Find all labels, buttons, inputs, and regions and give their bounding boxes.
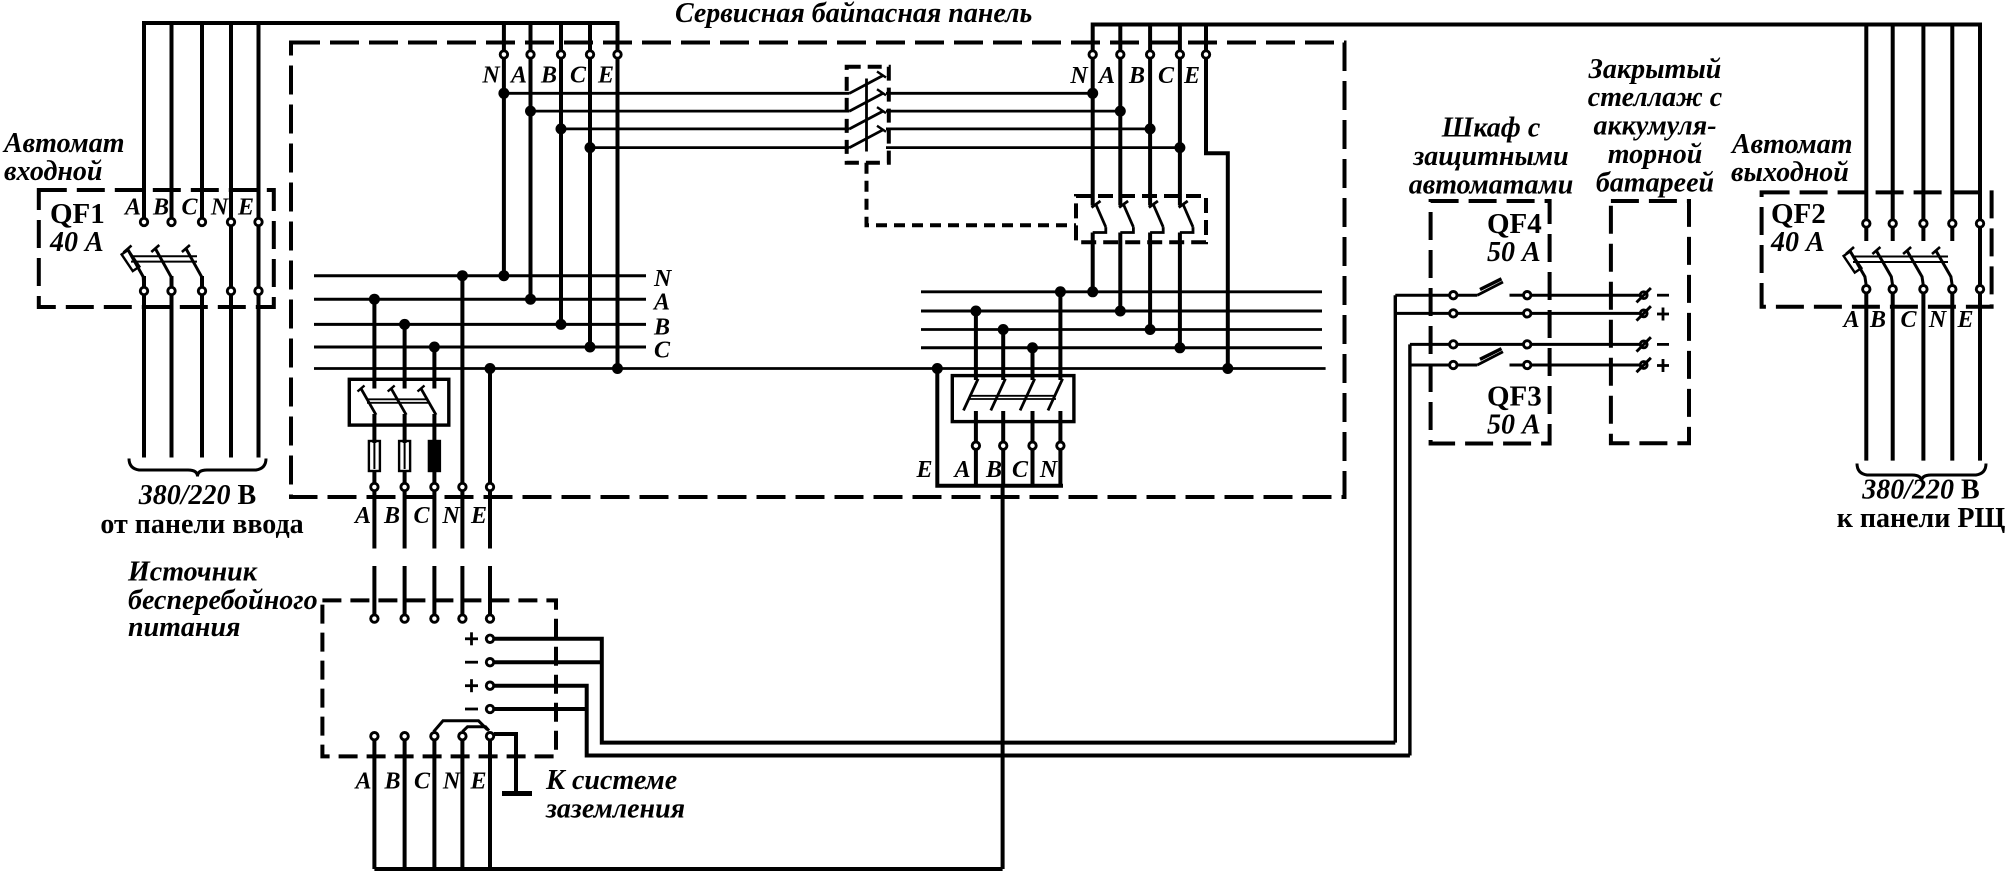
svg-text:А: А xyxy=(353,769,371,795)
svg-text:С: С xyxy=(414,769,431,795)
wire B horizontal left xyxy=(561,127,850,130)
label Закрытый стеллаж с аккумуляторной батареей xyxy=(1588,54,1723,199)
junction dots on E line xyxy=(485,363,1234,374)
QF2 blade bottom stubs xyxy=(1865,276,1953,286)
bypass panel dashed enclosure xyxy=(291,43,1345,498)
QF2 linkage bars xyxy=(1853,257,1948,263)
wires terminals down to strip xyxy=(976,450,1061,486)
svg-text:Е: Е xyxy=(1956,307,1973,333)
svg-text:А: А xyxy=(952,457,970,483)
svg-text:аккумуля-: аккумуля- xyxy=(1593,111,1716,142)
contactor K2 linkage bars xyxy=(969,396,1056,399)
UPS output terminal circles xyxy=(371,733,494,740)
junction dots on left buses xyxy=(369,270,596,352)
battery2 wire plus (QF3 pole) xyxy=(1410,364,1640,367)
svg-text:N: N xyxy=(441,503,461,529)
svg-text:С: С xyxy=(1158,63,1175,89)
DC wire battery2 plus xyxy=(494,686,1410,756)
ground xyxy=(502,791,532,796)
battery clamp 3 xyxy=(1637,337,1651,351)
svg-text:N: N xyxy=(481,63,501,89)
node N vertical (set1 to N bus) xyxy=(502,59,506,276)
wire B down to left contactor xyxy=(403,324,407,388)
fuse FU1 xyxy=(369,441,380,471)
N bus (left) xyxy=(314,274,646,277)
bypass manual switch dashed box xyxy=(847,67,889,163)
battery polarity marks - + - + xyxy=(1657,295,1669,372)
svg-text:А: А xyxy=(1841,307,1859,333)
interlock breakers dashed box xyxy=(1076,196,1206,242)
terminal circles QF2 top row xyxy=(1863,220,1984,227)
interlock breaker lower connectors xyxy=(1093,227,1193,232)
svg-text:Е: Е xyxy=(915,457,932,483)
wire A horizontal right xyxy=(886,110,1120,113)
battery1 wire minus (QF4 pole) xyxy=(1395,294,1640,297)
svg-text:входной: входной xyxy=(4,156,102,187)
bond bridge C to E xyxy=(434,721,488,732)
label Шкаф с защитными автоматами xyxy=(1409,113,1574,201)
svg-text:Шкаф с: Шкаф с xyxy=(1441,113,1541,144)
fuse FU2 xyxy=(399,441,410,471)
svg-text:Сервисная байпасная панель: Сервисная байпасная панель xyxy=(675,0,1032,29)
svg-text:380/220 В: 380/220 В xyxy=(138,480,256,511)
QF2 output verticals xyxy=(1866,25,1952,220)
svg-text:Е: Е xyxy=(597,63,614,89)
battery clamp 4 xyxy=(1637,358,1651,372)
wire A down to left contactor xyxy=(372,299,376,388)
node N vertical set2 xyxy=(1091,59,1095,206)
N bus (right, bypass output) xyxy=(921,290,1322,293)
svg-text:40 А: 40 А xyxy=(1770,227,1825,258)
contactor K2 blades xyxy=(964,379,1063,411)
bracket 380/220 В to РЩ panel xyxy=(1857,464,1986,482)
svg-text:50 А: 50 А xyxy=(1487,237,1541,268)
wire C down to left contactor xyxy=(432,347,436,389)
contactor K2 box (solid) xyxy=(952,376,1074,422)
QF1 blade bottom stubs xyxy=(143,276,202,288)
svg-text:QF3: QF3 xyxy=(1487,381,1542,413)
wire B K2 to terminal xyxy=(1001,411,1005,442)
wire C down to contactor K2 xyxy=(1031,348,1035,380)
node B vertical (set1 to B bus) xyxy=(559,59,563,324)
svg-text:торной: торной xyxy=(1608,139,1703,170)
bus labels N A B C xyxy=(652,266,673,364)
UPS dashed enclosure xyxy=(322,600,556,756)
DC wire battery2 minus xyxy=(494,707,587,711)
wire top bus right (set2 to QF2) xyxy=(1093,25,1980,223)
label К системе заземления xyxy=(545,765,685,825)
QF2 output lower verticals xyxy=(1866,293,1980,461)
wire QF1 pole B lower xyxy=(170,276,174,458)
pin labels set2 N A B C E xyxy=(1069,63,1200,89)
interlock breaker top ticks xyxy=(1092,201,1188,208)
svg-text:Автомат: Автомат xyxy=(2,128,125,159)
cabinet terminal circles xyxy=(1450,292,1531,369)
wire C horizontal left xyxy=(590,146,850,149)
QF2 pole upper stubs xyxy=(1866,228,1980,286)
svg-text:питания: питания xyxy=(128,612,240,643)
wire input C vertical xyxy=(200,24,204,222)
svg-text:N: N xyxy=(1069,63,1089,89)
svg-text:N: N xyxy=(210,195,230,221)
svg-text:QF4: QF4 xyxy=(1487,208,1542,240)
wire A fuse to terminal xyxy=(372,471,376,483)
label Источник бесперебойного питания xyxy=(127,557,318,644)
QF1 blade tick marks xyxy=(124,245,190,253)
wire B down to contactor K2 xyxy=(1001,330,1005,381)
junction dots on set1 verticals xyxy=(498,88,595,153)
node E vertical (set1 to E line) xyxy=(616,59,620,369)
UPS input terminal circles xyxy=(371,615,494,622)
svg-text:С: С xyxy=(1012,457,1029,483)
svg-text:В: В xyxy=(383,503,400,529)
wire QF1 pole C lower xyxy=(200,276,204,458)
battery2 wire minus xyxy=(1410,343,1640,346)
svg-text:В: В xyxy=(152,195,169,221)
wire B contactor to fuse xyxy=(403,414,407,443)
svg-text:QF1: QF1 xyxy=(50,198,105,230)
svg-text:N: N xyxy=(653,266,673,292)
QF1 linkage bar xyxy=(131,256,197,261)
wire E down from E line to strip xyxy=(937,369,1063,486)
svg-text:В: В xyxy=(540,63,557,89)
terminal stubs set2 xyxy=(1120,25,1206,51)
QF1 operating handle xyxy=(122,250,140,271)
wire N K2 to terminal xyxy=(1058,411,1062,442)
svg-text:защитными: защитными xyxy=(1412,141,1568,172)
QF2 blade ticks xyxy=(1846,247,1940,254)
svg-text:Е: Е xyxy=(470,503,487,529)
svg-text:В: В xyxy=(383,769,400,795)
wire B horizontal right xyxy=(886,127,1150,130)
bracket 380/220 В from input panel xyxy=(129,459,266,477)
wire C fuse to terminal xyxy=(432,471,436,483)
contactor K1 blade hooks xyxy=(358,386,425,392)
wire A horizontal left xyxy=(531,110,850,113)
svg-text:QF2: QF2 xyxy=(1771,198,1826,230)
wire A K2 to terminal xyxy=(974,411,978,442)
svg-text:Е: Е xyxy=(469,769,486,795)
DC wire battery1 minus xyxy=(494,660,602,664)
wire A down to contactor K2 xyxy=(974,311,978,380)
node C vertical (set1 to C bus) xyxy=(588,59,592,347)
B bus (right) xyxy=(921,328,1322,331)
svg-text:батареей: батареей xyxy=(1596,168,1714,199)
interlock breaker poles xyxy=(1096,204,1193,227)
terminal circles QF1 top row xyxy=(140,218,262,225)
E line (long earth wire) xyxy=(314,367,1326,370)
QF1 switch blade pole A xyxy=(128,249,202,277)
wires bypass output dropping to UPS (upper segments) xyxy=(374,491,490,549)
terminal circles bypass output row xyxy=(371,483,494,490)
svg-text:В: В xyxy=(985,457,1002,483)
svg-text:С: С xyxy=(181,195,198,221)
terminal circles QF2 bottom row xyxy=(1863,286,1984,293)
terminal circles set1 xyxy=(500,51,621,58)
terminal circles set2 xyxy=(1089,51,1210,58)
breaker QF2 dashed box xyxy=(1762,192,1992,306)
terminal circles QF1 bottom row xyxy=(140,287,262,294)
battery1 wire plus xyxy=(1395,312,1640,315)
svg-text:С: С xyxy=(570,63,587,89)
bond bridge N to E xyxy=(462,727,489,732)
svg-text:А: А xyxy=(652,290,670,316)
contactor K1 linkage bars xyxy=(367,399,428,403)
wire B fuse to terminal xyxy=(403,471,407,483)
bypass switch blade ticks xyxy=(877,72,886,132)
pin labels bypass output A B C N E xyxy=(353,503,487,529)
battery rack dashed box xyxy=(1611,201,1689,443)
svg-text:К системе: К системе xyxy=(545,765,677,796)
svg-text:N: N xyxy=(442,769,462,795)
wire top bus left (QF1 inputs to bypass terminals) xyxy=(144,23,618,222)
terminal circles K2 output row xyxy=(972,442,1064,449)
B bus (left) xyxy=(314,323,646,326)
wires into UPS (lower segments) xyxy=(374,566,490,614)
node E vertical set2 with jog xyxy=(1206,59,1228,369)
svg-text:50 А: 50 А xyxy=(1487,410,1541,441)
QF2 switch blades xyxy=(1850,251,1951,277)
breaker QF1 dashed box xyxy=(39,190,274,307)
wire N horizontal left xyxy=(504,92,850,95)
wire input N vertical xyxy=(229,24,233,458)
terminal stubs set1 (bypass input) xyxy=(504,25,590,50)
svg-text:автоматами: автоматами xyxy=(1409,170,1574,201)
pin labels E A B C N (K2 strip) xyxy=(915,457,1058,483)
QF2 operating handle xyxy=(1844,251,1862,272)
C bus (right) xyxy=(921,346,1322,349)
svg-text:В: В xyxy=(1128,63,1145,89)
contactor K1 box (solid) xyxy=(349,379,449,425)
earth tail from E terminal xyxy=(494,734,516,791)
node A vertical set2 xyxy=(1118,59,1122,206)
junction dots on right buses xyxy=(970,286,1185,353)
breaker QF4 blade xyxy=(1477,282,1503,295)
pin labels QF2 A B C N E xyxy=(1841,307,1973,333)
node B vertical set2 xyxy=(1148,59,1152,206)
wire C K2 to terminal xyxy=(1031,411,1035,442)
svg-text:40 А: 40 А xyxy=(49,227,104,258)
wire QF1 pole A lower xyxy=(142,276,146,458)
battery clamp 1 xyxy=(1637,288,1651,302)
wire E down to UPS input xyxy=(488,369,492,484)
battery clamp 2 xyxy=(1637,306,1651,320)
wire bypass output feeder (down to bottom bus) xyxy=(1001,486,1005,869)
DC riser battery1 xyxy=(1394,295,1397,742)
node A vertical (set1 to A bus) xyxy=(529,59,533,299)
DC wire battery1 plus xyxy=(494,639,1395,743)
wire input E vertical xyxy=(257,24,261,458)
label Автомат выходной xyxy=(1730,129,1853,188)
A bus (left) xyxy=(314,298,646,301)
svg-text:Закрытый: Закрытый xyxy=(1588,54,1722,85)
pin labels set1 N A B C E xyxy=(481,63,614,89)
polarity labels + - + - xyxy=(465,632,478,709)
svg-text:выходной: выходной xyxy=(1731,157,1849,188)
wire C contactor to fuse xyxy=(432,414,436,443)
A bus (right) xyxy=(921,310,1322,313)
svg-text:от панели ввода: от панели ввода xyxy=(100,509,303,540)
svg-text:А: А xyxy=(353,503,371,529)
svg-text:Е: Е xyxy=(1183,63,1200,89)
bypass switch linkage vertical xyxy=(865,79,868,152)
mechanical link dashed (switch to interlock breakers) xyxy=(867,163,1077,226)
wire N horizontal right xyxy=(886,92,1093,95)
wire C horizontal right xyxy=(886,146,1180,149)
svg-text:Автомат: Автомат xyxy=(1730,129,1853,160)
svg-text:С: С xyxy=(654,338,671,364)
svg-text:А: А xyxy=(509,63,527,89)
svg-text:N: N xyxy=(1928,307,1948,333)
svg-text:к панели РЩ: к панели РЩ xyxy=(1837,503,2005,534)
svg-text:380/220 В: 380/220 В xyxy=(1861,475,1979,506)
wire N down to contactor K2 xyxy=(1058,292,1062,380)
wire input B vertical xyxy=(170,24,174,222)
wire N down to UPS input xyxy=(460,276,464,483)
svg-text:Источник: Источник xyxy=(127,557,258,588)
svg-text:заземления: заземления xyxy=(545,794,685,825)
C bus (left) xyxy=(314,346,646,349)
bypass switch blades xyxy=(850,76,884,148)
pin labels UPS output A B C N E xyxy=(353,769,486,795)
junction dots on set2 verticals xyxy=(1087,88,1185,153)
svg-text:С: С xyxy=(1900,307,1917,333)
svg-text:N: N xyxy=(1039,457,1059,483)
svg-text:В: В xyxy=(1869,307,1886,333)
svg-text:А: А xyxy=(123,195,141,221)
wires UPS outputs to bottom bus xyxy=(374,740,490,869)
DC riser battery2 xyxy=(1408,344,1411,755)
svg-text:С: С xyxy=(413,503,430,529)
UPS DC terminal circles xyxy=(486,635,493,713)
breaker QF3 blade xyxy=(1477,352,1503,365)
bottom return bus xyxy=(374,867,1002,871)
svg-text:стеллаж с: стеллаж с xyxy=(1588,82,1723,113)
breaker cabinet QF3/QF4 dashed box xyxy=(1431,201,1550,444)
node C vertical set2 xyxy=(1178,59,1182,206)
fuse FU3 xyxy=(429,441,440,471)
svg-text:Е: Е xyxy=(237,195,254,221)
wire A contactor to fuse xyxy=(372,414,376,443)
contactor K1 blades xyxy=(361,389,436,415)
svg-text:А: А xyxy=(1097,63,1115,89)
